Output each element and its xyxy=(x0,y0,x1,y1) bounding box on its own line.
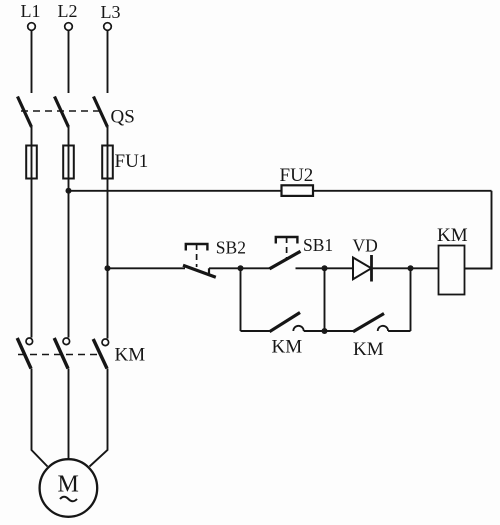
switch QS pole 2 blade xyxy=(55,97,69,128)
QS linkage dashed line xyxy=(21,110,101,112)
motor tilde symbol xyxy=(60,497,77,502)
svg-text:KM: KM xyxy=(437,225,468,246)
contactor KM pole 3 fixed contact circle xyxy=(102,339,109,346)
wire aux 1 to center riser xyxy=(304,330,325,332)
wire control feed top horizontal left of FU2 xyxy=(69,190,282,192)
svg-text:SB1: SB1 xyxy=(303,235,333,255)
node L3 terminal xyxy=(104,23,112,31)
pushbutton SB2 cap xyxy=(186,244,208,251)
wire FU1 to KM pole2 xyxy=(68,179,70,338)
pushbutton SB1 stem dashed xyxy=(286,237,288,258)
wire through fuse 3 xyxy=(107,146,109,178)
wire FU1 to KM pole3 xyxy=(107,179,109,339)
wire right aux riser xyxy=(410,268,412,331)
svg-text:KM: KM xyxy=(353,339,384,360)
wire through fuse 2 xyxy=(68,146,70,178)
contactor KM pole 1 fixed contact circle xyxy=(26,338,33,345)
pushbutton SB2 NC stop bar xyxy=(208,268,210,275)
junction dot on L2 control feed xyxy=(66,188,72,194)
contactor KM pole 2 fixed contact circle xyxy=(63,338,70,345)
wire aux bottom left xyxy=(241,330,270,332)
KM linkage dashed line xyxy=(18,354,100,356)
svg-text:L1: L1 xyxy=(21,1,41,21)
contactor KM pole 1 blade xyxy=(17,338,31,369)
wire QS to FU1 pole3 xyxy=(107,127,109,146)
junction dot node A xyxy=(238,265,244,271)
wire SB2 to node A xyxy=(209,267,241,269)
wire right side vertical drop xyxy=(465,191,492,269)
wire KM pole3 to motor xyxy=(90,369,108,467)
diode VD cathode bar xyxy=(370,255,373,282)
wire KM pole1 to motor xyxy=(32,369,48,467)
svg-text:KM: KM xyxy=(115,345,146,366)
wire L3 to QS xyxy=(107,30,109,93)
fuse FU2 xyxy=(282,185,314,196)
wire FU1 to KM pole1 xyxy=(31,179,33,338)
wire control feed top horizontal right of FU2 xyxy=(313,190,492,192)
switch QS pole 3 blade xyxy=(94,97,108,128)
pushbutton SB2 stem dashed xyxy=(196,244,198,267)
wire QS to FU1 pole2 xyxy=(68,127,70,146)
junction dot aux center xyxy=(322,328,328,334)
wire VD to node C xyxy=(372,267,439,269)
pushbutton SB1 NO blade xyxy=(270,251,301,268)
motor M circle xyxy=(40,459,98,517)
svg-text:SB2: SB2 xyxy=(216,238,246,258)
wire left aux riser xyxy=(240,268,242,331)
switch QS pole 1 blade xyxy=(18,97,32,128)
svg-text:FU1: FU1 xyxy=(115,151,149,172)
contact KM aux 2 blade xyxy=(353,314,384,332)
svg-text:VD: VD xyxy=(353,236,378,256)
fuse FU1 pole 1 xyxy=(26,146,37,179)
wire QS to FU1 pole1 xyxy=(31,127,33,146)
wire node A to SB1 xyxy=(241,267,272,269)
wire through fuse 1 xyxy=(31,146,33,178)
wire L1 to QS xyxy=(31,30,33,93)
wire L2 to QS xyxy=(68,30,70,93)
fuse FU1 pole 3 xyxy=(102,146,113,179)
wire aux bottom center xyxy=(325,330,354,332)
junction dot node C xyxy=(408,265,414,271)
contact KM aux 2 fixed arc xyxy=(378,326,388,331)
node L1 terminal xyxy=(28,23,36,31)
contactor KM pole 2 blade xyxy=(54,338,68,369)
junction dot control line on L3 xyxy=(105,265,111,271)
contact KM aux 1 blade xyxy=(270,313,301,332)
pushbutton SB1 cap xyxy=(276,237,298,244)
coil KM xyxy=(439,246,465,295)
wire L3 tap to SB2 xyxy=(108,267,186,269)
svg-text:L3: L3 xyxy=(101,2,121,22)
diode VD triangle xyxy=(353,258,371,280)
wire SB1 to node B xyxy=(296,267,325,269)
svg-text:QS: QS xyxy=(111,107,135,128)
junction dot node B xyxy=(322,265,328,271)
wire KM pole2 to motor xyxy=(68,369,70,460)
wire node B to diode VD xyxy=(325,267,354,269)
svg-text:KM: KM xyxy=(272,337,303,358)
svg-text:FU2: FU2 xyxy=(280,165,314,186)
wire center aux riser xyxy=(324,268,326,331)
contact KM aux 1 fixed arc xyxy=(293,326,303,331)
contactor KM pole 3 blade xyxy=(93,339,107,369)
wire aux 2 to right riser xyxy=(388,330,410,332)
node L2 terminal xyxy=(65,23,73,31)
pushbutton SB2 NC blade xyxy=(183,265,216,277)
svg-text:M: M xyxy=(58,472,79,498)
svg-text:L2: L2 xyxy=(58,1,78,21)
fuse FU1 pole 2 xyxy=(63,146,74,179)
